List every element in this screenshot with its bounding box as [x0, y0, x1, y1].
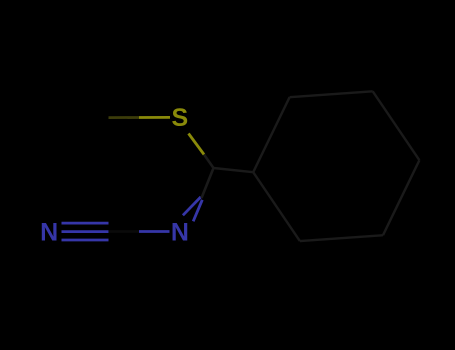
bond S-C4 sulfur half: [189, 134, 205, 155]
triple bond N1#C2 lower line: [62, 239, 109, 242]
bond S-CH3 carbon half: [109, 116, 140, 119]
benzene ring edge BL-L: [253, 172, 300, 241]
benzene ring edge BR-BL: [300, 235, 383, 241]
bond S-CH3 sulfur half: [139, 116, 170, 119]
svg-text:N: N: [171, 219, 189, 247]
double bond N3=C4 line B: [193, 200, 202, 222]
svg-text:N: N: [40, 218, 58, 246]
double bond N3=C4 carbon half: [202, 168, 214, 198]
svg-text:S: S: [172, 104, 189, 132]
benzene ring edge TL-TR: [290, 91, 373, 97]
triple bond N1#C2 middle line: [62, 230, 109, 233]
bond C4-ring: [214, 168, 254, 172]
double bond N3=C4 line A: [183, 197, 201, 215]
single bond C2-N3: [109, 230, 139, 233]
benzene ring edge L-TL: [253, 97, 289, 172]
triple bond N1#C2 upper line: [62, 222, 109, 225]
bond S-C4 carbon half: [204, 155, 214, 169]
benzene ring edge R-BR: [383, 160, 419, 235]
benzene ring edge TR-R: [373, 91, 420, 160]
